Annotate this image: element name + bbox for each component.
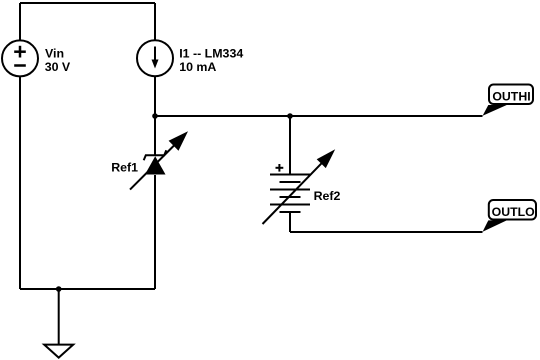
svg-text:10 mA: 10 mA (179, 60, 216, 74)
svg-text:30 V: 30 V (45, 60, 71, 74)
svg-text:OUTHI: OUTHI (492, 90, 530, 104)
svg-text:Ref2: Ref2 (314, 189, 341, 203)
svg-text:Vin: Vin (45, 47, 64, 61)
svg-text:I1 -- LM334: I1 -- LM334 (179, 46, 243, 60)
svg-text:Ref1: Ref1 (111, 160, 138, 174)
svg-text:OUTLO: OUTLO (492, 205, 535, 219)
